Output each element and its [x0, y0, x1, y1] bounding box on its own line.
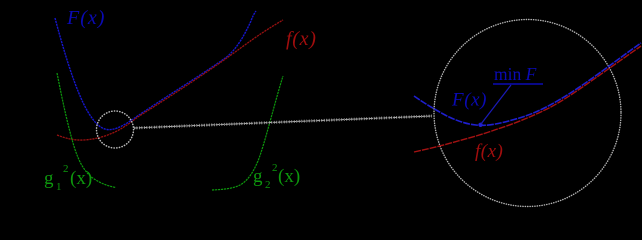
curve f2: red f(x) magnified, right [414, 46, 641, 152]
curve g1sq: green penalty g1^2(x), left graph [57, 73, 116, 188]
label g1^2(x) green [44, 163, 92, 193]
small magnifier circle around minimum [97, 111, 134, 148]
svg-text:min F: min F [494, 64, 537, 84]
curve F1: blue penalty objective F(x), left graph [55, 11, 256, 130]
label f(x) magnified, red [475, 141, 503, 162]
svg-text:g22(x): g22(x) [253, 162, 300, 191]
curve f1: dark red objective f(x), left graph [57, 20, 283, 140]
svg-text:f(x): f(x) [475, 141, 503, 162]
label g2^2(x) green [253, 162, 300, 191]
curve F2: blue F(x) magnified, right [414, 43, 641, 125]
pointer line from min F label to dot [481, 85, 511, 124]
svg-text:F(x): F(x) [66, 7, 105, 29]
curve g2sq: green penalty g2^2(x), left graph [212, 76, 283, 190]
label F(x) magnified, blue [451, 90, 487, 111]
label min F with underline, blue [493, 64, 543, 84]
label f(x) left, red [286, 28, 317, 50]
label F(x) left, blue [66, 7, 105, 29]
big magnifier circle (zoomed view) [434, 20, 621, 207]
svg-text:g12(x): g12(x) [44, 163, 92, 193]
svg-text:f(x): f(x) [286, 28, 317, 50]
dot marking min F on magnified curve [478, 123, 482, 127]
svg-text:F(x): F(x) [451, 90, 487, 111]
magnifier connector line from small circle to big circle [134, 116, 432, 128]
